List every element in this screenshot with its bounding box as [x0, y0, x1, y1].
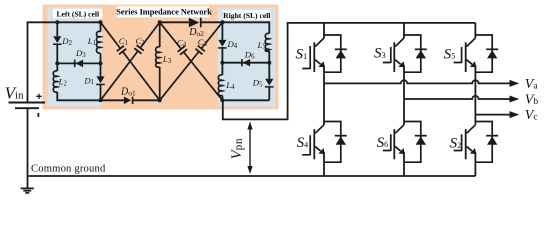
svg-text:Vpn: Vpn [229, 138, 245, 159]
svg-text:S5: S5 [444, 46, 456, 62]
svg-text:Va: Va [525, 77, 539, 92]
svg-text:S3: S3 [374, 46, 386, 62]
svg-text:Right (SL) cell: Right (SL) cell [223, 11, 270, 20]
svg-text:S2: S2 [450, 136, 462, 152]
svg-text:Left (SL) cell: Left (SL) cell [56, 9, 99, 18]
svg-text:S4: S4 [297, 135, 309, 151]
svg-text:Common ground: Common ground [31, 163, 106, 174]
svg-text:Vin: Vin [5, 84, 24, 103]
svg-text:Vc: Vc [525, 108, 538, 123]
svg-text:Do2: Do2 [188, 27, 204, 38]
svg-text:S6: S6 [377, 135, 389, 151]
svg-text:S1: S1 [296, 47, 308, 63]
svg-text:Do1: Do1 [120, 86, 136, 97]
svg-text:Vb: Vb [525, 93, 539, 108]
svg-text:Series Impedance Network: Series Impedance Network [116, 7, 212, 16]
